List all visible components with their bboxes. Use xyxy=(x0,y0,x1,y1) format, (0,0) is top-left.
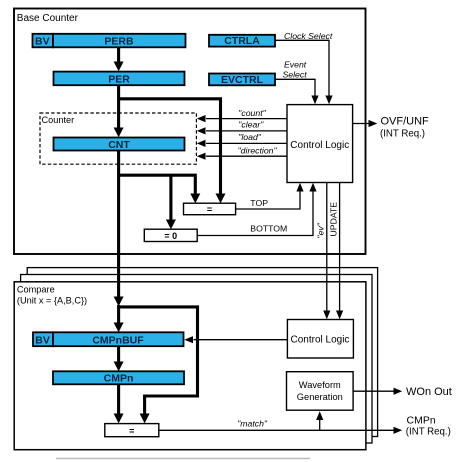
svg-text:"clear": "clear" xyxy=(238,120,264,130)
wire branch CNT to BOTTOM comparator xyxy=(166,175,176,229)
wire CMPn to match comparator xyxy=(114,384,124,423)
register CTRLA xyxy=(209,35,275,47)
wire match to CMPn interrupt output xyxy=(159,427,402,434)
wire match to waveform generation xyxy=(316,411,323,430)
label TOP xyxy=(250,198,268,208)
counter dashed box xyxy=(40,113,196,164)
svg-text:PERB: PERB xyxy=(104,36,134,48)
svg-text:PER: PER xyxy=(108,73,130,85)
signal direction xyxy=(197,146,287,160)
svg-text:=: = xyxy=(129,426,134,436)
wire junction into compare unit xyxy=(114,305,124,332)
svg-text:"direction": "direction" xyxy=(238,146,278,156)
label Base Counter xyxy=(17,13,79,24)
svg-text:Event: Event xyxy=(284,59,307,69)
page shadow line xyxy=(56,458,310,460)
svg-text:CMPn: CMPn xyxy=(104,373,134,385)
label OVF/UNF xyxy=(380,116,429,140)
svg-text:"load": "load" xyxy=(238,132,262,142)
wire Event Select EVCTRL to control logic xyxy=(275,79,319,104)
control logic box (compare) xyxy=(287,320,353,359)
register CMPn xyxy=(53,371,184,384)
register EVCTRL xyxy=(209,74,275,87)
wire ev down to compare control logic xyxy=(323,183,330,320)
label Compare unit xyxy=(17,285,87,306)
wire CMPnBUF to CMPn xyxy=(114,346,124,371)
signal arrows control logic to counter: count xyxy=(197,108,287,122)
comparator = 0 BOTTOM xyxy=(144,229,197,241)
svg-text:WOn Out: WOn Out xyxy=(406,386,452,398)
wire branch PER to TOP comparator xyxy=(119,99,226,203)
svg-text:= 0: = 0 xyxy=(164,231,177,241)
register BV PERB buffer xyxy=(33,34,54,48)
svg-text:Waveform: Waveform xyxy=(299,380,341,390)
svg-text:UPDATE: UPDATE xyxy=(329,202,339,237)
svg-text:(INT Req.): (INT Req.) xyxy=(406,427,451,438)
label match xyxy=(237,419,268,429)
register PER xyxy=(54,72,185,86)
comparator = TOP xyxy=(184,203,236,215)
svg-text:CMPnBUF: CMPnBUF xyxy=(92,334,144,346)
control logic box (base counter) xyxy=(287,105,353,183)
wire BOTTOM to control logic xyxy=(197,183,316,236)
svg-text:Control Logic: Control Logic xyxy=(291,334,350,345)
signal load xyxy=(197,132,287,147)
svg-text:BOTTOM: BOTTOM xyxy=(250,224,287,234)
wire WOn output xyxy=(353,388,402,395)
compare unit front box xyxy=(14,282,366,450)
wire CNT loop around to compare match xyxy=(119,307,198,424)
svg-text:"match": "match" xyxy=(237,419,268,429)
svg-text:Counter: Counter xyxy=(42,115,75,125)
wire OVF output xyxy=(353,120,378,127)
svg-text:OVF/UNF: OVF/UNF xyxy=(381,116,430,128)
label CMPn interrupt xyxy=(406,415,451,438)
svg-text:Control Logic: Control Logic xyxy=(290,140,349,151)
comparator = match xyxy=(105,424,159,437)
svg-text:CNT: CNT xyxy=(108,139,130,151)
wire Clock Select CTRLA to control logic xyxy=(275,40,333,104)
register PERB xyxy=(53,34,186,48)
svg-text:Generation: Generation xyxy=(297,392,343,402)
compare unit stacked frame 1 xyxy=(21,275,372,444)
label WOn Out xyxy=(406,386,452,398)
compare unit stacked frame 2 (back) xyxy=(27,268,377,437)
label Event Select xyxy=(283,59,308,79)
svg-text:Clock Select: Clock Select xyxy=(284,31,333,41)
svg-text:"ev": "ev" xyxy=(316,222,326,238)
base counter outer box xyxy=(14,9,366,255)
svg-text:CTRLA: CTRLA xyxy=(224,35,260,47)
register CNT xyxy=(54,138,185,151)
register CMPnBUF xyxy=(53,332,184,346)
wire compare control logic to CMPnBUF xyxy=(184,336,287,343)
svg-text:BV: BV xyxy=(35,334,50,346)
wire bus PER to CNT xyxy=(114,85,124,137)
svg-text:"count": "count" xyxy=(238,108,266,118)
waveform generation box xyxy=(287,372,354,411)
label ev rotated xyxy=(316,222,326,238)
wire bus PERB to PER xyxy=(114,47,124,71)
label UPDATE rotated xyxy=(329,202,339,237)
signal clear xyxy=(197,120,287,135)
svg-text:Base Counter: Base Counter xyxy=(17,13,79,24)
wire TOP to control logic xyxy=(236,183,304,209)
register BV CMPnBUF buffer xyxy=(33,332,53,346)
svg-text:(Unit x = {A,B,C}): (Unit x = {A,B,C}) xyxy=(17,295,87,305)
wire branch CNT to TOP comparator xyxy=(119,175,201,203)
svg-text:=: = xyxy=(207,205,212,215)
label Counter xyxy=(42,115,75,125)
svg-text:EVCTRL: EVCTRL xyxy=(221,74,264,86)
svg-text:TOP: TOP xyxy=(250,198,268,208)
label BOTTOM xyxy=(250,224,287,234)
svg-text:BV: BV xyxy=(35,36,50,48)
wire UPDATE down to compare control logic xyxy=(336,183,343,320)
svg-text:Select: Select xyxy=(283,70,308,80)
wire bus CNT down to compare section xyxy=(114,150,124,306)
svg-text:Compare: Compare xyxy=(17,285,55,295)
label Clock Select xyxy=(284,31,333,41)
svg-text:CMPn: CMPn xyxy=(407,415,436,427)
svg-text:(INT Req.): (INT Req.) xyxy=(380,128,425,139)
